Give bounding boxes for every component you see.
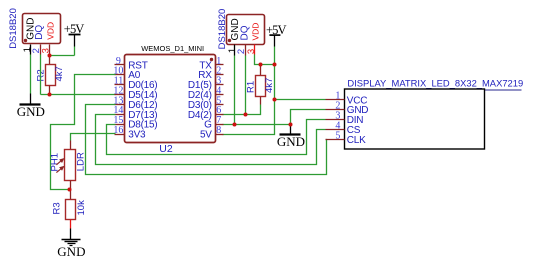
U2 pin 14 stub	[115, 114, 125, 116]
DS18B20 #2 pin label DQ	[239, 25, 250, 40]
svg-text:VDD: VDD	[251, 23, 261, 41]
wire +5V#1 to VDD junction	[50, 55, 75, 57]
svg-text:WEMOS_D1_MINI: WEMOS_D1_MINI	[141, 44, 204, 53]
R3 bottom stub red	[70, 220, 72, 229]
LDR arrow 1	[56, 159, 63, 165]
U2 pin 11 stub	[115, 84, 125, 86]
DS18B20 #1 pin number 1	[22, 47, 33, 52]
GND #3 bar 2	[65, 241, 78, 243]
DS18B20 #1 body	[23, 14, 61, 44]
display label underline	[348, 89, 522, 91]
DS18B20 #1 pin label VDD	[46, 22, 56, 40]
svg-text:DQ: DQ	[34, 25, 45, 40]
LDR name label	[76, 152, 87, 171]
DS18B20 #2 pin1 marker dot	[228, 39, 231, 42]
DS18B20 #1 pin label GND	[25, 18, 36, 40]
DS18B20 #2 pin 1 stub	[234, 45, 236, 56]
U2 pin 8 stub	[216, 134, 224, 136]
svg-text:R1: R1	[245, 81, 256, 93]
DS18B20 #2 body	[227, 15, 265, 45]
DS18B20 #1 pin1 marker dot	[24, 39, 27, 42]
svg-text:8: 8	[216, 125, 221, 136]
U2 pin 2 stub	[216, 74, 224, 76]
+5V #1 bar	[69, 34, 81, 36]
DS18B20 #2 pin number 3	[246, 49, 257, 54]
svg-text:R3: R3	[51, 202, 62, 214]
GND #3 stub	[70, 229, 72, 240]
GND #2 stub	[290, 125, 292, 135]
svg-text:U2: U2	[159, 143, 173, 155]
DS18B20 #1 pin number 2	[31, 48, 42, 53]
node DQ2/D4 junction dot	[244, 113, 248, 117]
wire DS2 DQ down to D4 line	[245, 56, 247, 115]
DS18B20 #1 pin label DQ	[34, 25, 45, 40]
LDR bottom stub	[70, 181, 72, 190]
DS18B20 #2 pin label VDD	[251, 23, 261, 41]
U2 pin 10 stub	[115, 74, 125, 76]
R2 top stub	[49, 56, 51, 65]
wire +5V#1 down	[74, 47, 76, 56]
U2 pin 12 stub	[115, 94, 125, 96]
U2 pin 13 stub	[115, 104, 125, 106]
GND #3 bar 1	[62, 239, 81, 241]
svg-text:3: 3	[246, 49, 257, 54]
node VCC tap junction dot	[273, 98, 277, 102]
resistor R3 body	[66, 200, 76, 220]
U2 pin 9 stub	[115, 64, 125, 66]
+5V #2 bar	[269, 34, 280, 36]
svg-text:GND: GND	[277, 134, 305, 149]
R1 label	[245, 81, 256, 93]
svg-text:VDD: VDD	[46, 22, 56, 40]
wire VDD2 down-right	[255, 55, 275, 65]
R3 top stub	[70, 190, 72, 200]
display pin 5 stub	[326, 139, 345, 141]
DS18B20 #1 pin 2 stub	[40, 45, 42, 55]
wire 3V3 to LDR top	[71, 134, 116, 141]
wire A0 route	[51, 75, 116, 190]
DS18B20 #1 pin 3 stub	[49, 45, 51, 56]
R3 value 10k	[76, 200, 87, 216]
resistor R2 body	[46, 65, 56, 86]
node R1 top junction dot	[259, 63, 263, 67]
GND #3 bar 3	[68, 243, 76, 245]
label DS18B20 (U? sensor 1)	[8, 8, 19, 49]
wire DS1 GND down	[30, 55, 32, 94]
node VDD1 junction dot	[48, 54, 52, 58]
wire G line	[223, 124, 291, 126]
wire DQ1 down	[40, 55, 42, 95]
LDR arrow 2	[56, 167, 63, 173]
svg-text:CLK: CLK	[347, 135, 366, 146]
svg-text:5V: 5V	[200, 130, 212, 141]
svg-text:5: 5	[335, 130, 340, 141]
wire +5V#2 down	[274, 47, 276, 65]
node LDR/R3/A0 junction dot	[68, 188, 72, 192]
GND #3 bar 4	[70, 245, 73, 247]
R1 top stub	[260, 65, 262, 76]
DS18B20 #2 pin 2 stub	[245, 45, 247, 56]
svg-text:GND: GND	[17, 104, 45, 119]
U2 pin 15 stub	[115, 124, 125, 126]
wire VCC line	[275, 99, 326, 101]
wire R1 bottom to D4 line	[223, 105, 261, 115]
DS18B20 #1 pin number 3	[41, 48, 52, 53]
U2 pin 5 stub	[216, 104, 224, 106]
node DS2GND/G junction dot	[233, 123, 237, 127]
node R2/DQ junction dot	[48, 93, 52, 97]
U2 pin 4 stub	[216, 94, 224, 96]
node +5V#2 junction dot	[273, 63, 277, 67]
U2 pin1 marker dot	[210, 58, 213, 61]
R2 bottom stub	[49, 86, 51, 95]
wire display GND	[291, 110, 326, 125]
U2 pin 7 stub	[216, 124, 224, 126]
LDR body	[65, 150, 76, 181]
wire D8(15) to DIN	[107, 120, 326, 155]
svg-text:16: 16	[113, 125, 123, 136]
R3 label	[51, 202, 62, 214]
display pin 1 stub	[326, 99, 345, 101]
R1 bottom stub	[260, 97, 262, 105]
U2 pin 1 stub	[216, 64, 224, 66]
U2 pin 6 stub	[216, 114, 224, 116]
wire +5V#2 down to VCC tap	[274, 65, 276, 100]
svg-text:DQ: DQ	[239, 25, 250, 40]
svg-text:DISPLAY_MATRIX_LED_8X32_MAX721: DISPLAY_MATRIX_LED_8X32_MAX7219	[347, 77, 523, 88]
wire D6(12) to CLK	[86, 105, 327, 175]
svg-text:GND: GND	[57, 244, 85, 259]
U2 pin 3 stub	[216, 84, 224, 86]
wire DQ1 horizontal to WEMOS pin12	[41, 94, 116, 96]
R1 value 4k7	[264, 78, 275, 93]
svg-text:3V3: 3V3	[128, 130, 146, 141]
node G/GND2 junction dot	[289, 123, 293, 127]
display pin 3 stub	[326, 119, 345, 121]
wire +5V#2 down to 5V pin line	[223, 100, 275, 135]
R2 value 4k7	[54, 66, 65, 81]
LDR top stub	[70, 141, 72, 150]
DS18B20 #2 pin number 1	[227, 48, 238, 53]
DS18B20 #2 pin 3 stub (red)	[254, 45, 256, 55]
GND #1 stub	[30, 94, 32, 105]
wire DS2 GND down to G line	[234, 56, 236, 125]
display pin 4 stub	[326, 129, 345, 131]
U2 pin 16 stub	[115, 134, 125, 136]
display body	[345, 89, 485, 149]
svg-text:10k: 10k	[76, 200, 87, 216]
wire D7(13) to CS	[96, 115, 326, 165]
svg-text:4k7: 4k7	[54, 66, 65, 81]
resistor R1 body	[256, 76, 266, 97]
DS18B20 #2 pin number 2	[236, 49, 247, 54]
op module U2 body	[125, 55, 216, 143]
PH1 label	[50, 153, 61, 171]
+5V #2 stub	[274, 35, 276, 46]
DS18B20 #2 pin label GND	[230, 18, 241, 40]
GND #2 bar	[280, 133, 301, 135]
+5V #1 stub	[74, 35, 76, 47]
label DS18B20 #2	[217, 9, 228, 50]
svg-text:4k7: 4k7	[264, 78, 275, 93]
DS18B20 #1 pin 1 stub	[30, 45, 32, 55]
display pin 2 stub	[326, 109, 345, 111]
R2 label	[35, 69, 46, 81]
svg-text:DS18B20: DS18B20	[8, 8, 19, 49]
GND #1 bar	[20, 103, 41, 105]
